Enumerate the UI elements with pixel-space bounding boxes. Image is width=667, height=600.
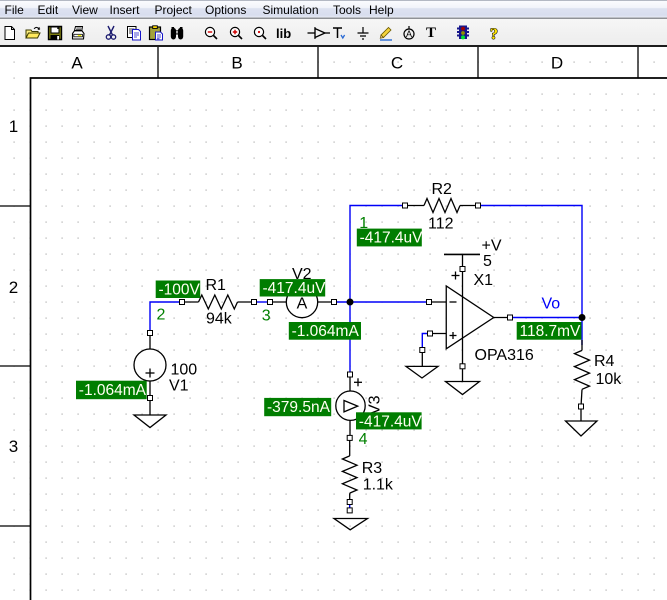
- svg-text:-1.064mA: -1.064mA: [292, 323, 360, 340]
- svg-text:4: 4: [359, 431, 368, 448]
- value label -417.4uV node 1: [357, 229, 423, 247]
- ground below R3: [334, 519, 368, 530]
- ruler labels: [9, 54, 563, 457]
- toolbar icon: cut: [103, 25, 119, 41]
- svg-text:-1.064mA: -1.064mA: [79, 382, 147, 399]
- toolbar icon: copy: [126, 25, 142, 41]
- current meter V3: [336, 375, 365, 438]
- svg-text:?: ?: [490, 26, 498, 41]
- toolbar icon: zoom in: [228, 25, 244, 41]
- svg-text:C: C: [391, 54, 403, 73]
- wire V2 to opamp minus input: [334, 301, 429, 303]
- junction node at minus input: [347, 299, 354, 306]
- pin squares: [148, 203, 584, 513]
- svg-text:-100V: -100V: [159, 282, 201, 299]
- toolbar icon: zoom window: [252, 25, 268, 41]
- toolbar icon: find: [169, 25, 185, 41]
- svg-text:OPA316: OPA316: [475, 347, 534, 364]
- svg-text:112: 112: [428, 216, 454, 233]
- wire V1 top to R1: [150, 302, 182, 333]
- resistor R3: [342, 438, 357, 502]
- junction node at output: [579, 314, 586, 321]
- toolbar icon: save: [47, 25, 63, 41]
- svg-text:A: A: [406, 29, 412, 39]
- resistor R2: [405, 199, 478, 213]
- svg-text:A: A: [297, 296, 308, 313]
- value label -417.4uV node 4: [356, 412, 422, 430]
- svg-text:V1: V1: [169, 378, 189, 395]
- svg-text:B: B: [231, 54, 242, 73]
- wire node to R4: [581, 318, 583, 346]
- svg-text:-379.5nA: -379.5nA: [267, 399, 331, 416]
- toolbar icon: open folder: [25, 25, 41, 41]
- value label -417.4uV node 3: [260, 279, 326, 297]
- value label -379.5nA: [264, 398, 331, 416]
- ammeter V2: [270, 286, 334, 317]
- toolbar icon: paste: [148, 25, 164, 41]
- svg-text:+V: +V: [482, 238, 502, 255]
- toolbar: [0, 19, 667, 45]
- resistor R1: [182, 295, 254, 309]
- wire R3 to ground: [349, 502, 351, 511]
- svg-text:A: A: [71, 54, 83, 73]
- menu bar: [0, 0, 667, 19]
- svg-text:1.1k: 1.1k: [363, 477, 394, 494]
- svg-text:Vo: Vo: [542, 296, 561, 313]
- voltage source V1: [134, 333, 166, 415]
- svg-text:94k: 94k: [206, 311, 233, 328]
- toolbar icon: T voltage pin: [331, 25, 347, 41]
- toolbar icon: new file: [2, 25, 18, 41]
- toolbar icon: traffic light: [455, 25, 471, 41]
- svg-text:X1: X1: [474, 272, 494, 289]
- value label -1.064mA at V1: [76, 381, 147, 400]
- wire node to R2 (feedback up): [350, 206, 405, 303]
- svg-text:5: 5: [483, 253, 492, 270]
- ground below V1: [134, 415, 166, 428]
- svg-text:3: 3: [262, 308, 271, 325]
- ground below R4: [566, 421, 598, 436]
- ground below op-amp supply: [446, 382, 480, 395]
- toolbar icon: ground: [355, 25, 371, 41]
- svg-text:V3: V3: [367, 395, 384, 415]
- wire R2 to output node: [478, 206, 582, 318]
- ground at plus input: [406, 350, 438, 378]
- toolbar icon: help: [486, 25, 502, 41]
- toolbar icon: print: [70, 25, 86, 41]
- svg-text:R3: R3: [362, 460, 383, 477]
- value label -100V: [156, 281, 201, 299]
- value label -1.064mA at V2: [289, 322, 361, 340]
- toolbar icon: meter: [401, 25, 417, 41]
- svg-text:R1: R1: [206, 277, 227, 294]
- toolbar icon: zoom out: [203, 25, 219, 41]
- toolbar icon: pencil: [378, 25, 394, 41]
- svg-text:2: 2: [9, 278, 18, 297]
- op-amp X1: [429, 254, 510, 381]
- svg-text:118.7mV: 118.7mV: [520, 323, 582, 340]
- ruler column dividers: [0, 47, 638, 526]
- svg-text:1: 1: [9, 117, 18, 136]
- svg-text:R2: R2: [432, 181, 453, 198]
- svg-text:-417.4uV: -417.4uV: [359, 413, 423, 430]
- wire plus input jog to ground: [422, 334, 430, 351]
- toolbar icon: lib: [276, 26, 298, 42]
- svg-text:3: 3: [9, 437, 18, 456]
- svg-text:-417.4uV: -417.4uV: [263, 280, 327, 297]
- wire node down to V3: [349, 302, 351, 375]
- resistor R4: [575, 340, 590, 421]
- svg-text:R4: R4: [594, 353, 615, 370]
- svg-text:D: D: [551, 54, 563, 73]
- wire R1 to V2: [254, 301, 270, 303]
- svg-text:-417.4uV: -417.4uV: [360, 230, 424, 247]
- value label 118.7mV: [517, 322, 582, 340]
- toolbar icon: text: [426, 25, 442, 41]
- toolbar icon: pin gate: [307, 25, 331, 41]
- svg-text:2: 2: [157, 307, 166, 324]
- wire opamp output to node: [510, 317, 582, 319]
- svg-text:10k: 10k: [596, 371, 623, 388]
- svg-text:100: 100: [171, 362, 198, 379]
